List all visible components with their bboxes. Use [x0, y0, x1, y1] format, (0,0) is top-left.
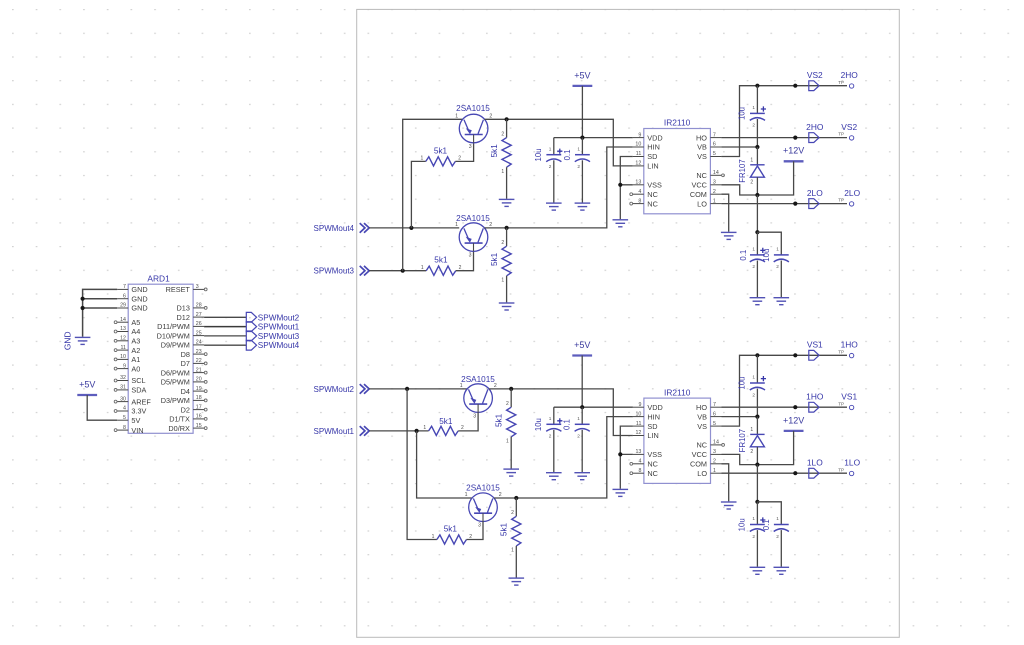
wire R3 bottom lead to ground: [506, 167, 508, 199]
svg-text:1: 1: [577, 146, 580, 151]
svg-text:5: 5: [123, 415, 126, 421]
sheet border frame: [357, 9, 900, 637]
svg-text:+5V: +5V: [574, 70, 590, 80]
junction testpoint tap 2HO row: [793, 136, 797, 140]
wire C2 bottom lead to ground: [581, 160, 583, 202]
svg-text:16: 16: [196, 414, 202, 420]
svg-text:VIN: VIN: [131, 426, 143, 435]
wire C5 top lead: [553, 407, 555, 424]
svg-text:1: 1: [752, 105, 755, 110]
junction Q1 collector / R3: [505, 117, 509, 121]
svg-text:GND: GND: [62, 331, 72, 350]
svg-text:IR2110: IR2110: [664, 118, 691, 128]
svg-text:TP: TP: [838, 349, 844, 354]
wire net SPWMout1 row to R5: [369, 430, 428, 432]
U1 NC pin markers: [630, 174, 725, 205]
svg-text:AREF: AREF: [131, 397, 151, 406]
ground under C2: [575, 203, 591, 210]
transistor Q2 2SA1015 (second): [459, 223, 488, 252]
svg-text:1: 1: [432, 534, 435, 540]
port 1LO: [809, 468, 819, 478]
svg-text:FR107: FR107: [738, 159, 747, 182]
svg-text:SD: SD: [647, 152, 657, 161]
svg-text:1: 1: [776, 516, 779, 521]
svg-text:5k1: 5k1: [490, 144, 499, 158]
svg-text:HO: HO: [696, 133, 707, 142]
wire +5V stem to VDD rail bottom: [581, 356, 583, 408]
resistor R2 5k1 (bottom base resistor): [426, 266, 456, 275]
svg-text:3: 3: [713, 449, 716, 455]
wire R4 bottom lead to ground: [506, 276, 508, 303]
wire branch to C4b: [757, 232, 781, 255]
wire branch up to R1 pin1: [411, 161, 425, 228]
port VS1: [809, 350, 819, 360]
svg-text:SCL: SCL: [131, 376, 145, 385]
svg-text:10: 10: [120, 354, 126, 360]
transistor Q1 2SA1015 (top): [459, 114, 488, 143]
svg-text:LIN: LIN: [647, 431, 658, 440]
wire net SPWMout2 row to Q3 emitter: [369, 388, 467, 390]
wire LO to port 1LO: [722, 472, 848, 474]
ground under C1: [546, 203, 562, 210]
wire VDD rail bottom with caps: [554, 406, 633, 408]
svg-text:5k1: 5k1: [439, 417, 453, 426]
svg-text:12: 12: [635, 430, 641, 436]
svg-text:2: 2: [713, 459, 716, 465]
svg-text:2SA1015: 2SA1015: [466, 484, 500, 493]
svg-text:0.1: 0.1: [762, 519, 771, 530]
svg-text:27: 27: [196, 312, 202, 318]
wire branch to C8b: [757, 502, 781, 525]
svg-text:14: 14: [120, 317, 126, 323]
ground under C8a: [750, 567, 766, 574]
svg-text:D5/PWM: D5/PWM: [161, 378, 190, 387]
wire R8 top lead: [515, 498, 517, 516]
junction 10u cap on VS2 row: [755, 84, 759, 88]
capacitor C8b 0.1: [774, 525, 789, 532]
svg-text:IR2110: IR2110: [664, 387, 691, 397]
wire LO to port 2LO: [721, 203, 847, 205]
svg-text:5k1: 5k1: [490, 252, 499, 266]
svg-text:D11/PWM: D11/PWM: [157, 322, 190, 331]
svg-text:1: 1: [752, 375, 755, 380]
svg-text:2: 2: [577, 434, 580, 439]
svg-text:3: 3: [469, 144, 472, 150]
wire SD to VSS tie bottom: [620, 426, 633, 454]
wire C7 top lead: [756, 355, 758, 383]
svg-text:2: 2: [752, 534, 755, 539]
svg-text:1: 1: [577, 416, 580, 421]
svg-text:HIN: HIN: [647, 412, 660, 421]
svg-text:8: 8: [638, 468, 641, 474]
wire +12V stem to junction: [757, 161, 793, 195]
wire R4 top lead: [506, 228, 508, 246]
svg-text:VDD: VDD: [647, 403, 662, 412]
svg-text:LO: LO: [697, 469, 707, 478]
U2 right pin numbers: [713, 402, 719, 474]
svg-text:29: 29: [120, 303, 126, 309]
svg-text:1: 1: [421, 265, 424, 271]
op-amp/driver U2 body IR2110: [644, 398, 711, 483]
junction GND pin29: [81, 306, 85, 310]
svg-text:2: 2: [501, 240, 504, 246]
svg-text:2: 2: [501, 131, 504, 137]
svg-text:3: 3: [473, 413, 476, 419]
svg-text:NC: NC: [696, 171, 707, 180]
wire VCC to +12V junction: [721, 185, 757, 195]
wire R1 pin2 to Q1 base: [455, 143, 473, 162]
svg-text:6: 6: [713, 142, 716, 148]
svg-text:D2: D2: [181, 405, 190, 414]
wire C4a top lead: [756, 232, 758, 255]
capacitor C5 10u: [546, 424, 561, 431]
svg-text:2LO: 2LO: [807, 188, 823, 198]
transistor Q4 2SA1015 (fourth): [469, 493, 498, 522]
svg-text:2: 2: [776, 534, 779, 539]
svg-text:14: 14: [713, 170, 719, 176]
U1 right pin stubs: [710, 138, 721, 204]
wire R7 top lead: [510, 389, 512, 407]
diode D2 FR107: [750, 434, 764, 446]
svg-text:13: 13: [635, 179, 641, 185]
svg-text:SPWMout1: SPWMout1: [314, 427, 355, 436]
svg-text:3: 3: [469, 252, 472, 258]
port SPWMout2 (output arrow): [246, 312, 256, 322]
svg-text:4: 4: [638, 459, 641, 465]
svg-text:2SA1015: 2SA1015: [456, 104, 490, 113]
wire D1 cathode lead to +12V junction: [756, 177, 758, 195]
wire C5 bottom lead to ground: [553, 430, 555, 472]
svg-text:9: 9: [638, 132, 641, 138]
sheet entry SPWMout2 chevron: [360, 384, 370, 394]
wire VSS to ground bottom: [620, 454, 633, 488]
svg-text:1: 1: [750, 157, 753, 163]
svg-text:1: 1: [460, 383, 463, 389]
ground under C8b: [774, 567, 790, 574]
U2 right pin names: [690, 403, 707, 478]
svg-text:NC: NC: [647, 199, 658, 208]
junction SPWMout1 branch: [415, 429, 419, 433]
svg-text:8: 8: [638, 198, 641, 204]
wire SPWMout2 drop to R6 pin1: [407, 389, 437, 540]
wire +5V to ARD1 5V pin: [87, 395, 117, 420]
svg-text:TP: TP: [838, 198, 844, 203]
ground under R3: [499, 199, 515, 206]
capacitor C6 0.1: [575, 424, 590, 431]
wire C6 bottom lead to ground: [581, 430, 583, 472]
svg-text:13: 13: [120, 326, 126, 332]
svg-text:5k1: 5k1: [495, 413, 504, 427]
svg-text:VS: VS: [697, 422, 707, 431]
resistor R5 5k1 (Q3 base resistor): [429, 426, 459, 435]
ground under C6: [574, 473, 590, 480]
junction GND pin6: [81, 297, 85, 301]
svg-text:1LO: 1LO: [807, 458, 823, 468]
svg-text:2: 2: [752, 123, 755, 128]
svg-text:2: 2: [549, 164, 552, 169]
ARD1 no-connect markers left: [114, 321, 117, 432]
svg-text:A4: A4: [131, 327, 140, 336]
ground under C4b: [774, 298, 790, 305]
svg-text:21: 21: [196, 367, 202, 373]
svg-text:2SA1015: 2SA1015: [461, 375, 495, 384]
svg-text:SPWMout4: SPWMout4: [258, 341, 300, 350]
wire C2 top lead: [581, 138, 583, 155]
wire C1 top lead: [553, 138, 555, 155]
svg-text:7: 7: [713, 132, 716, 138]
wire D9 to port SPWMout4: [204, 344, 246, 346]
U2 right pin stubs: [711, 407, 722, 473]
svg-text:FR107: FR107: [738, 429, 747, 452]
resistor R4 5k1 (pull-down): [502, 246, 511, 276]
svg-text:12: 12: [635, 161, 641, 167]
wire VSS to ground: [620, 185, 633, 219]
ARD1 right pin numbers: [196, 284, 202, 429]
wire C1 bottom lead to ground: [553, 160, 555, 202]
svg-text:2: 2: [511, 510, 514, 516]
ground GND near ARD1: [75, 337, 91, 344]
capacitor C8a 10u: [750, 525, 765, 532]
port 2LO: [809, 199, 819, 209]
ARD1 no-connect markers right: [204, 288, 207, 430]
wire net SPWMout3 row to vertical riser: [369, 270, 426, 272]
svg-text:11: 11: [636, 151, 642, 157]
svg-text:1: 1: [752, 516, 755, 521]
wire VDD rail with caps: [554, 137, 633, 139]
svg-text:5k1: 5k1: [434, 146, 448, 155]
port SPWMout4 (output arrow): [246, 340, 256, 350]
svg-text:1: 1: [549, 146, 552, 151]
svg-text:2: 2: [750, 179, 753, 185]
svg-text:+12V: +12V: [783, 146, 804, 156]
svg-text:11: 11: [636, 421, 642, 427]
junction SD/VSS: [618, 183, 622, 187]
svg-text:VS1: VS1: [841, 392, 857, 402]
wire D1 anode lead: [756, 147, 758, 165]
U1 right pin numbers: [713, 132, 719, 204]
svg-text:25: 25: [196, 330, 202, 336]
svg-text:TP: TP: [838, 401, 844, 406]
wire Q2 collector to HIN riser: [485, 147, 633, 228]
wire SD to VSS tie: [620, 157, 633, 185]
svg-text:COM: COM: [690, 190, 707, 199]
ground under R7: [503, 469, 519, 476]
svg-text:HO: HO: [696, 403, 707, 412]
wire +12V junction down to filter caps bottom: [756, 465, 758, 502]
junction testpoint tap 2LO row: [793, 202, 797, 206]
svg-text:VCC: VCC: [692, 450, 707, 459]
wire HO to port 2HO: [721, 137, 847, 139]
svg-text:1: 1: [713, 468, 716, 474]
wire C4b bottom to ground: [780, 261, 782, 298]
resistor R6 5k1 (Q4 base resistor): [437, 535, 467, 544]
svg-text:1: 1: [501, 278, 504, 284]
wire HO to port 1HO: [722, 406, 848, 408]
svg-text:22: 22: [196, 358, 202, 364]
svg-text:D8: D8: [181, 350, 190, 359]
junction +5V / 0.1 cap: [580, 136, 584, 140]
svg-text:D7: D7: [181, 359, 190, 368]
svg-text:GND: GND: [131, 285, 147, 294]
wire VB to diode junction: [721, 146, 757, 148]
svg-text:LO: LO: [697, 199, 707, 208]
svg-text:3.3V: 3.3V: [131, 407, 146, 416]
U2 left pin names: [647, 403, 662, 478]
svg-text:2HO: 2HO: [841, 70, 859, 80]
wire +12V stem to junction bottom: [757, 431, 793, 465]
svg-text:SPWMout4: SPWMout4: [314, 224, 355, 233]
svg-text:D10/PWM: D10/PWM: [157, 331, 190, 340]
svg-text:2LO: 2LO: [844, 188, 860, 198]
svg-text:5: 5: [713, 151, 716, 157]
wire C6 top lead: [581, 407, 583, 424]
wire R7 bottom lead to ground: [510, 437, 512, 469]
sheet entry SPWMout1 chevron: [360, 426, 370, 436]
svg-text:10u: 10u: [762, 249, 771, 262]
U2 NC pin markers: [630, 444, 725, 475]
svg-text:D3/PWM: D3/PWM: [161, 396, 190, 405]
svg-text:D12: D12: [177, 313, 190, 322]
svg-text:8: 8: [123, 425, 126, 431]
wire C4a bottom to ground: [756, 261, 758, 298]
svg-text:GND: GND: [131, 304, 147, 313]
ARD1 left pin stubs: [117, 289, 128, 430]
junction VB/C7/D2: [755, 415, 759, 419]
port 2HO: [809, 133, 819, 143]
svg-text:NC: NC: [696, 441, 707, 450]
svg-text:2: 2: [713, 189, 716, 195]
svg-text:2: 2: [506, 401, 509, 407]
junction D1/+12V/VCC: [755, 193, 759, 197]
transistor Q3 2SA1015 (third): [464, 384, 493, 413]
svg-text:2: 2: [750, 449, 753, 455]
ground under R4: [499, 303, 515, 310]
ARD1 right pin names: [157, 285, 191, 433]
svg-text:19: 19: [196, 386, 202, 392]
wire R3 top lead: [506, 119, 508, 137]
svg-text:SPWMout3: SPWMout3: [314, 267, 355, 276]
svg-text:28: 28: [196, 303, 202, 309]
junction filter caps: [755, 230, 759, 234]
svg-text:5V: 5V: [131, 416, 140, 425]
svg-text:0.1: 0.1: [563, 150, 572, 161]
wire R6 pin2 to Q4 base: [467, 522, 484, 540]
wire SPWMout3 riser up to Q1 emitter: [403, 119, 463, 270]
svg-text:A5: A5: [131, 318, 140, 327]
svg-text:A3: A3: [131, 337, 140, 346]
wire SPWMout1 drop to Q4 emitter: [417, 431, 472, 498]
wire D11 to port SPWMout1: [204, 326, 246, 328]
svg-text:5: 5: [713, 421, 716, 427]
svg-text:1: 1: [506, 439, 509, 445]
svg-text:5k1: 5k1: [434, 256, 448, 265]
svg-text:10u: 10u: [738, 518, 747, 531]
wire COM to ground bottom: [722, 464, 729, 502]
capacitor C7 10u bootstrap: [750, 383, 765, 390]
junction testpoint tap 1HO row: [793, 405, 797, 409]
wire Q1 collector to junction: [485, 119, 633, 166]
junction VB/C3/D1: [755, 145, 759, 149]
svg-text:0.1: 0.1: [563, 419, 572, 430]
svg-text:COM: COM: [690, 460, 707, 469]
svg-text:23: 23: [196, 349, 202, 355]
ground under VSS: [613, 220, 629, 227]
sheet entry SPWMout4 chevron: [360, 223, 370, 233]
wire R2 pin2 to Q2 base: [456, 251, 474, 270]
svg-text:2HO: 2HO: [806, 122, 824, 132]
svg-text:4: 4: [638, 189, 641, 195]
svg-text:1LO: 1LO: [844, 458, 860, 468]
svg-text:A2: A2: [131, 346, 140, 355]
svg-text:1: 1: [750, 427, 753, 433]
svg-text:1HO: 1HO: [806, 392, 824, 402]
resistor R3 5k1 (pull-down): [502, 138, 511, 168]
svg-text:VS2: VS2: [841, 122, 857, 132]
wire C8a top lead: [756, 502, 758, 525]
svg-text:VCC: VCC: [691, 180, 706, 189]
capacitor C1 10u: [546, 155, 561, 162]
svg-text:TP: TP: [838, 467, 844, 472]
svg-text:VSS: VSS: [647, 450, 662, 459]
svg-text:D0/RX: D0/RX: [168, 424, 190, 433]
svg-text:NC: NC: [647, 460, 658, 469]
wire VS riser to output row VS2: [721, 86, 847, 157]
svg-text:D13: D13: [177, 304, 190, 313]
svg-text:+5V: +5V: [79, 379, 95, 389]
svg-text:ARD1: ARD1: [147, 274, 170, 284]
svg-text:SD: SD: [647, 422, 657, 431]
junction SPWMout2 branch: [405, 387, 409, 391]
wire Q3 collector to LIN riser: [489, 389, 633, 436]
svg-text:20: 20: [196, 377, 202, 383]
ARD1 left pin numbers: [120, 284, 126, 431]
U1 left pin numbers: [635, 132, 641, 204]
ground under COM U2: [721, 502, 737, 509]
svg-text:2: 2: [776, 264, 779, 269]
svg-text:1: 1: [776, 247, 779, 252]
svg-text:VDD: VDD: [647, 133, 662, 142]
U1 left pin names: [647, 133, 662, 208]
capacitor C2 0.1: [575, 155, 590, 162]
svg-text:2: 2: [499, 492, 502, 498]
svg-text:31: 31: [120, 385, 126, 391]
svg-text:2: 2: [752, 392, 755, 397]
junction 10u cap on VS1 row: [755, 353, 759, 357]
svg-text:3: 3: [713, 179, 716, 185]
svg-text:+12V: +12V: [783, 415, 804, 425]
svg-text:D4: D4: [181, 387, 190, 396]
svg-text:A1: A1: [131, 355, 140, 364]
ground under COM U1: [721, 232, 737, 239]
U2 left pin numbers: [635, 402, 641, 474]
svg-text:NC: NC: [647, 469, 658, 478]
svg-text:10u: 10u: [534, 148, 543, 161]
U1 left pin stubs: [633, 138, 644, 204]
svg-text:SPWMout2: SPWMout2: [314, 385, 355, 394]
svg-text:26: 26: [196, 321, 202, 327]
svg-text:A0: A0: [131, 364, 140, 373]
svg-text:6: 6: [123, 293, 126, 299]
svg-text:14: 14: [713, 440, 719, 446]
wire D10 to port SPWMout3: [204, 335, 246, 337]
junction filter caps bottom: [755, 500, 759, 504]
wire R5 pin2 to Q3 base: [458, 412, 478, 431]
svg-text:9: 9: [123, 363, 126, 369]
wire VB to diode junction bottom: [722, 416, 758, 418]
svg-text:30: 30: [120, 396, 126, 402]
svg-text:RESET: RESET: [166, 285, 191, 294]
resistor R7 5k1 (pull-down): [507, 407, 516, 437]
